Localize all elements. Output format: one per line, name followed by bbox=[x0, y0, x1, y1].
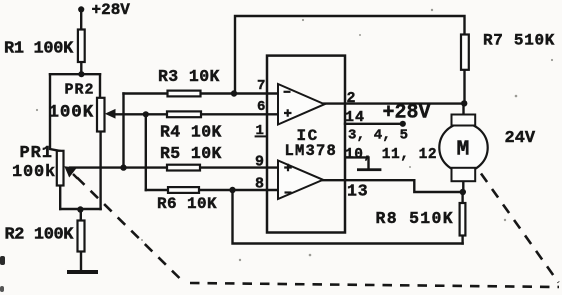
svg-text:R7 510K: R7 510K bbox=[483, 32, 555, 50]
svg-text:8: 8 bbox=[255, 176, 264, 193]
svg-text:+28V: +28V bbox=[383, 102, 431, 125]
svg-text:R1 100K: R1 100K bbox=[4, 40, 74, 59]
svg-text:24V: 24V bbox=[505, 129, 536, 148]
svg-text:R8 510K: R8 510K bbox=[376, 209, 454, 228]
svg-text:100k: 100k bbox=[12, 163, 56, 182]
svg-text:100K: 100K bbox=[49, 103, 95, 123]
svg-text:14: 14 bbox=[345, 109, 365, 126]
svg-text:9: 9 bbox=[255, 153, 264, 170]
svg-text:2: 2 bbox=[347, 90, 356, 107]
svg-text:3, 4, 5: 3, 4, 5 bbox=[348, 128, 408, 144]
svg-text:PR1: PR1 bbox=[20, 144, 53, 163]
svg-text:R4 10K: R4 10K bbox=[160, 123, 222, 142]
svg-text:R5 10K: R5 10K bbox=[160, 144, 222, 163]
svg-text:LM378: LM378 bbox=[285, 142, 338, 160]
svg-text:R2 100K: R2 100K bbox=[5, 226, 75, 245]
svg-text:R3 10K: R3 10K bbox=[158, 67, 220, 86]
svg-text:10, 11, 12: 10, 11, 12 bbox=[345, 147, 437, 163]
svg-text:7: 7 bbox=[257, 78, 265, 94]
svg-text:+28V: +28V bbox=[92, 1, 131, 19]
svg-text:R6 10K: R6 10K bbox=[157, 195, 217, 213]
svg-text:PR2: PR2 bbox=[65, 82, 95, 99]
svg-text:6: 6 bbox=[257, 99, 265, 115]
svg-text:13: 13 bbox=[347, 182, 368, 201]
svg-text:M: M bbox=[457, 138, 470, 162]
